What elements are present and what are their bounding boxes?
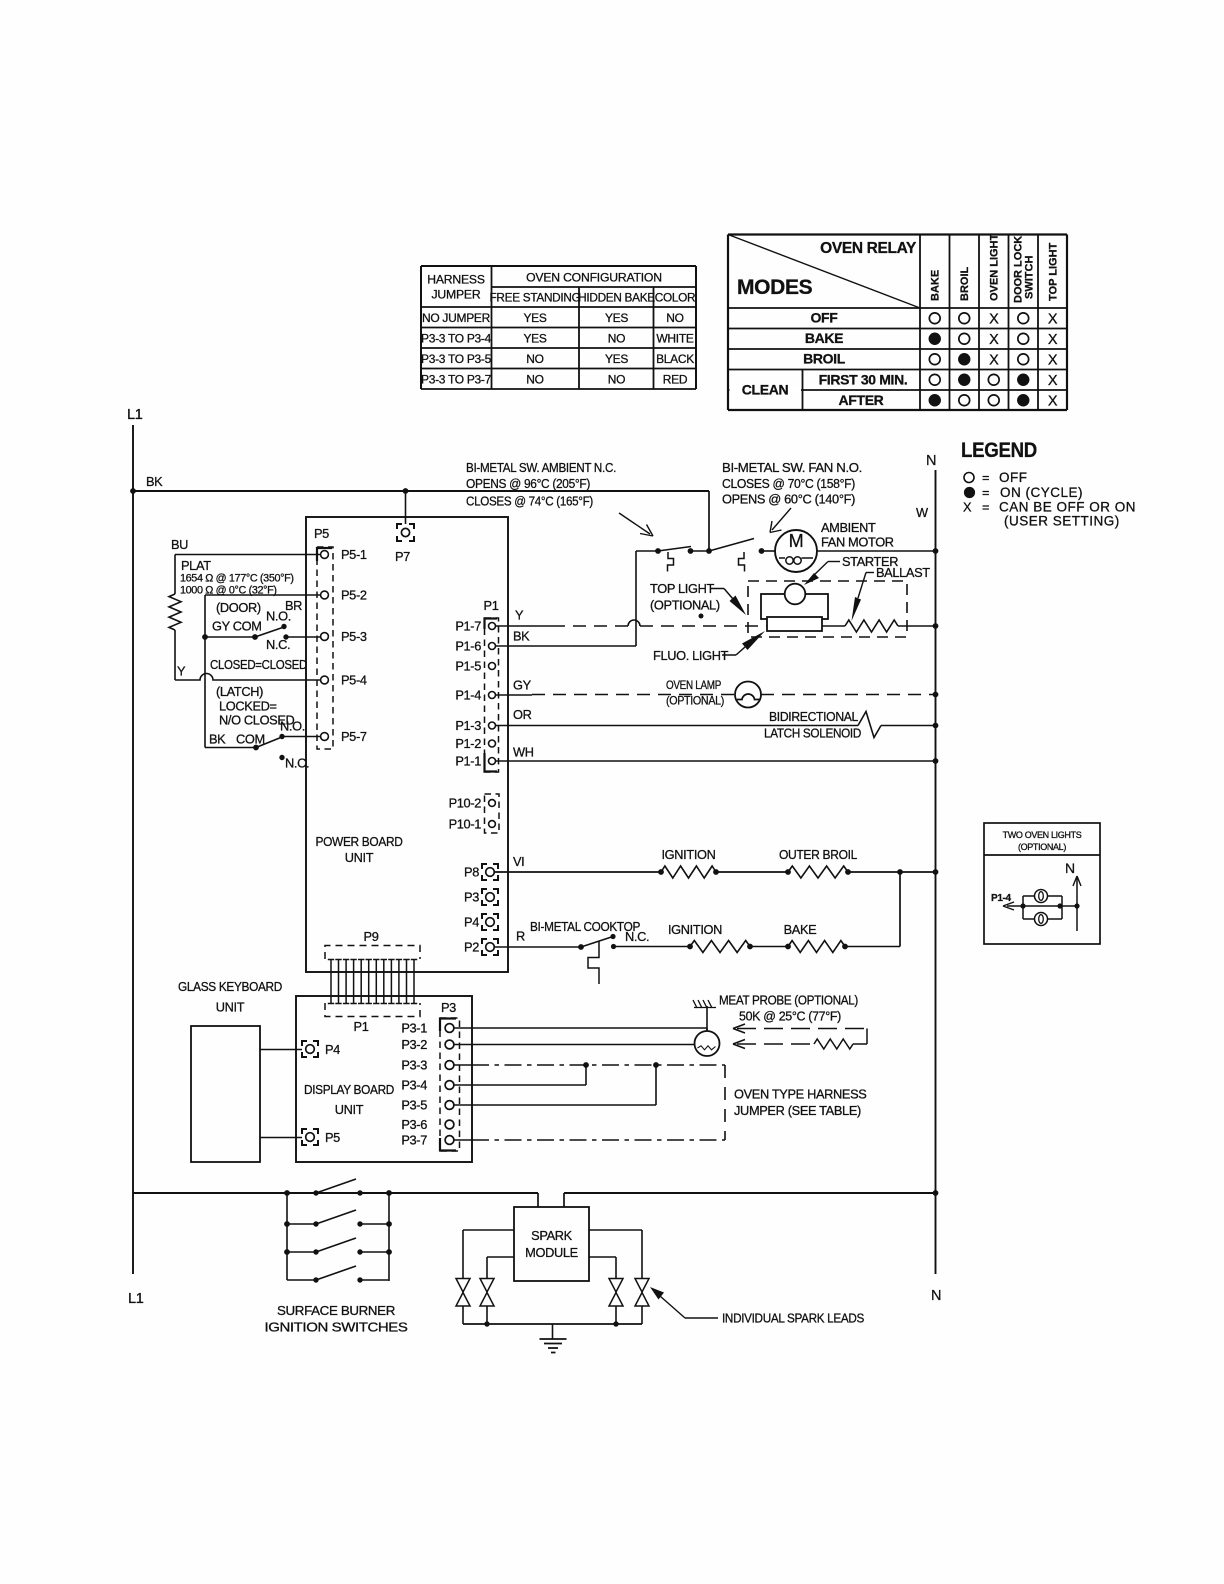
svg-text:SWITCH: SWITCH	[1024, 256, 1036, 299]
svg-text:BAKE: BAKE	[784, 922, 817, 937]
svg-text:OVEN TYPE HARNESS: OVEN TYPE HARNESS	[734, 1087, 867, 1102]
svg-text:P4: P4	[325, 1042, 340, 1057]
svg-text:YES: YES	[523, 311, 546, 325]
svg-text:BK: BK	[513, 629, 530, 644]
svg-text:=: =	[982, 470, 989, 485]
svg-text:BAKE: BAKE	[930, 270, 942, 301]
svg-text:=: =	[982, 500, 989, 515]
svg-text:50K @ 25°C (77°F): 50K @ 25°C (77°F)	[739, 1009, 841, 1024]
svg-text:BAKE: BAKE	[805, 330, 843, 346]
svg-text:NO: NO	[526, 373, 543, 387]
svg-text:UNIT: UNIT	[216, 1000, 245, 1015]
svg-text:N.O.: N.O.	[280, 719, 305, 734]
svg-text:P1: P1	[484, 598, 499, 613]
svg-text:=: =	[982, 485, 989, 500]
svg-text:COM: COM	[236, 732, 265, 747]
svg-text:(OPTIONAL): (OPTIONAL)	[1018, 842, 1066, 852]
svg-text:NO JUMPER: NO JUMPER	[422, 311, 491, 325]
svg-text:FAN MOTOR: FAN MOTOR	[821, 535, 894, 550]
svg-text:P2: P2	[464, 940, 479, 955]
svg-text:NO: NO	[608, 332, 625, 346]
svg-text:BI-METAL SW. AMBIENT N.C.: BI-METAL SW. AMBIENT N.C.	[466, 460, 616, 475]
svg-text:N: N	[931, 1288, 941, 1304]
svg-text:P1-4: P1-4	[991, 893, 1012, 904]
svg-text:BR: BR	[285, 598, 302, 613]
svg-text:P3: P3	[441, 1000, 456, 1015]
svg-text:1654 Ω @ 177°C (350°F): 1654 Ω @ 177°C (350°F)	[180, 573, 294, 585]
svg-text:X: X	[1048, 373, 1058, 389]
svg-text:LEGEND: LEGEND	[961, 438, 1037, 462]
svg-text:VI: VI	[513, 854, 524, 869]
svg-text:LOCKED=: LOCKED=	[219, 699, 277, 714]
svg-text:COLOR: COLOR	[655, 291, 695, 305]
svg-text:WH: WH	[513, 745, 534, 760]
svg-text:P5-3: P5-3	[341, 629, 367, 644]
svg-text:(USER SETTING): (USER SETTING)	[1004, 514, 1120, 529]
svg-text:PLAT: PLAT	[181, 558, 211, 573]
svg-text:P3-3 TO P3-5: P3-3 TO P3-5	[421, 352, 492, 366]
svg-text:P1-2: P1-2	[455, 736, 481, 751]
svg-text:NO: NO	[608, 373, 625, 387]
svg-text:R: R	[516, 929, 525, 944]
svg-text:FIRST 30 MIN.: FIRST 30 MIN.	[819, 372, 908, 388]
svg-text:X: X	[1048, 332, 1058, 348]
svg-text:YES: YES	[523, 332, 546, 346]
svg-text:DISPLAY BOARD: DISPLAY BOARD	[304, 1082, 394, 1097]
svg-text:CAN BE OFF OR ON: CAN BE OFF OR ON	[999, 500, 1136, 515]
svg-text:INDIVIDUAL SPARK LEADS: INDIVIDUAL SPARK LEADS	[722, 1312, 864, 1326]
svg-text:X: X	[989, 311, 999, 327]
svg-text:P5-1: P5-1	[341, 547, 367, 562]
svg-text:WHITE: WHITE	[656, 332, 693, 346]
svg-text:N.C.: N.C.	[266, 637, 290, 652]
svg-text:X: X	[989, 352, 999, 368]
svg-text:BU: BU	[171, 537, 188, 552]
svg-text:TOP LIGHT: TOP LIGHT	[1048, 242, 1060, 301]
svg-text:NO: NO	[666, 311, 683, 325]
svg-text:OVEN CONFIGURATION: OVEN CONFIGURATION	[526, 271, 662, 285]
svg-text:P5-7: P5-7	[341, 729, 367, 744]
svg-text:OFF: OFF	[811, 310, 839, 326]
svg-text:OR: OR	[513, 707, 532, 722]
svg-text:CLOSES @ 70°C (158°F): CLOSES @ 70°C (158°F)	[722, 476, 855, 491]
svg-text:CLEAN: CLEAN	[742, 382, 789, 398]
svg-text:Y: Y	[515, 608, 524, 623]
svg-text:P3-6: P3-6	[401, 1117, 427, 1132]
svg-text:X: X	[1048, 393, 1058, 409]
svg-text:OUTER BROIL: OUTER BROIL	[779, 847, 857, 862]
svg-text:W: W	[916, 505, 929, 520]
svg-text:P1-5: P1-5	[455, 659, 481, 674]
svg-text:P9: P9	[364, 929, 379, 944]
svg-text:P5-4: P5-4	[341, 673, 367, 688]
svg-text:P10-1: P10-1	[449, 817, 482, 832]
svg-text:BALLAST: BALLAST	[876, 565, 930, 580]
svg-text:TOP LIGHT: TOP LIGHT	[650, 581, 714, 596]
svg-text:P4: P4	[464, 915, 479, 930]
svg-text:GY COM: GY COM	[212, 619, 262, 634]
svg-text:BK: BK	[209, 732, 226, 747]
svg-text:MODES: MODES	[737, 276, 813, 299]
svg-text:P1: P1	[354, 1019, 369, 1034]
svg-text:P7: P7	[395, 549, 410, 564]
svg-text:MEAT PROBE (OPTIONAL): MEAT PROBE (OPTIONAL)	[719, 993, 858, 1008]
svg-text:P10-2: P10-2	[449, 796, 482, 811]
svg-text:BIDIRECTIONAL: BIDIRECTIONAL	[769, 709, 858, 724]
svg-text:AMBIENT: AMBIENT	[821, 520, 876, 535]
svg-text:P5-2: P5-2	[341, 588, 367, 603]
svg-text:OVEN LIGHT: OVEN LIGHT	[989, 233, 1001, 301]
svg-text:N.C.: N.C.	[625, 929, 649, 944]
svg-text:P3-5: P3-5	[401, 1098, 427, 1113]
svg-text:OPENS @ 96°C (205°F): OPENS @ 96°C (205°F)	[466, 476, 590, 491]
svg-text:SPARK: SPARK	[531, 1228, 572, 1243]
svg-text:P5: P5	[325, 1130, 340, 1145]
svg-text:OPENS @ 60°C (140°F): OPENS @ 60°C (140°F)	[722, 492, 855, 507]
svg-text:AFTER: AFTER	[839, 392, 884, 408]
svg-text:BI-METAL COOKTOP: BI-METAL COOKTOP	[530, 919, 640, 934]
svg-text:P1-7: P1-7	[455, 619, 481, 634]
svg-text:1000 Ω @ 0°C (32°F): 1000 Ω @ 0°C (32°F)	[180, 585, 277, 597]
svg-text:LATCH SOLENOID: LATCH SOLENOID	[764, 726, 861, 741]
svg-text:P3-1: P3-1	[401, 1021, 427, 1036]
svg-text:L1: L1	[127, 407, 143, 423]
svg-text:GY: GY	[513, 678, 532, 693]
svg-text:P3-2: P3-2	[401, 1037, 427, 1052]
svg-text:X: X	[1048, 311, 1058, 327]
svg-text:P1-6: P1-6	[455, 639, 481, 654]
svg-text:MODULE: MODULE	[525, 1245, 578, 1260]
svg-text:IGNITION: IGNITION	[661, 847, 715, 862]
svg-text:FREE STANDING: FREE STANDING	[490, 291, 581, 305]
svg-text:P3-3 TO P3-7: P3-3 TO P3-7	[421, 373, 492, 387]
svg-text:N.C.: N.C.	[285, 756, 309, 771]
svg-text:BLACK: BLACK	[656, 352, 694, 366]
svg-text:X: X	[963, 500, 972, 515]
svg-text:P3-3 TO P3-4: P3-3 TO P3-4	[421, 332, 492, 346]
svg-text:IGNITION SWITCHES: IGNITION SWITCHES	[265, 1320, 408, 1335]
svg-text:P3: P3	[464, 890, 479, 905]
svg-text:P1-3: P1-3	[455, 718, 481, 733]
svg-text:(OPTIONAL): (OPTIONAL)	[650, 598, 720, 613]
svg-text:BROIL: BROIL	[803, 351, 846, 367]
svg-text:UNIT: UNIT	[345, 850, 374, 865]
svg-text:BROIL: BROIL	[959, 267, 971, 302]
svg-text:JUMPER (SEE TABLE): JUMPER (SEE TABLE)	[734, 1103, 861, 1118]
svg-text:OFF: OFF	[999, 470, 1028, 485]
svg-text:P3-3: P3-3	[401, 1058, 427, 1073]
svg-text:P3-4: P3-4	[401, 1078, 427, 1093]
svg-text:(LATCH): (LATCH)	[216, 684, 263, 699]
svg-text:P1-4: P1-4	[455, 688, 481, 703]
svg-text:P8: P8	[464, 865, 479, 880]
svg-text:CLOSED=CLOSED: CLOSED=CLOSED	[210, 657, 307, 672]
svg-text:YES: YES	[605, 311, 628, 325]
svg-text:IGNITION: IGNITION	[668, 922, 722, 937]
svg-text:UNIT: UNIT	[335, 1102, 364, 1117]
svg-text:ON (CYCLE): ON (CYCLE)	[1000, 485, 1083, 500]
svg-text:NO: NO	[526, 352, 543, 366]
svg-text:POWER BOARD: POWER BOARD	[316, 834, 403, 849]
svg-text:HARNESS: HARNESS	[427, 273, 485, 287]
svg-text:GLASS KEYBOARD: GLASS KEYBOARD	[178, 979, 282, 994]
svg-text:X: X	[1048, 352, 1058, 368]
svg-text:BI-METAL SW. FAN N.O.: BI-METAL SW. FAN N.O.	[722, 460, 862, 475]
svg-text:OVEN LAMP: OVEN LAMP	[666, 678, 721, 692]
svg-text:N: N	[1065, 860, 1075, 876]
svg-text:X: X	[989, 332, 999, 348]
svg-text:TWO OVEN LIGHTS: TWO OVEN LIGHTS	[1003, 830, 1082, 840]
svg-text:M: M	[789, 531, 804, 551]
svg-text:Y: Y	[177, 664, 186, 679]
svg-text:RED: RED	[663, 373, 688, 387]
svg-text:YES: YES	[605, 352, 628, 366]
svg-text:(OPTIONAL): (OPTIONAL)	[666, 694, 724, 708]
svg-text:SURFACE BURNER: SURFACE BURNER	[277, 1303, 395, 1318]
svg-text:JUMPER: JUMPER	[432, 288, 481, 302]
svg-text:N: N	[926, 453, 936, 469]
svg-text:P1-1: P1-1	[455, 754, 481, 769]
svg-text:OVEN RELAY: OVEN RELAY	[820, 240, 917, 257]
svg-text:CLOSES @ 74°C (165°F): CLOSES @ 74°C (165°F)	[466, 494, 593, 509]
svg-text:P5: P5	[314, 526, 329, 541]
svg-text:(DOOR): (DOOR)	[216, 600, 261, 615]
svg-text:P3-7: P3-7	[401, 1133, 427, 1148]
svg-text:HIDDEN BAKE: HIDDEN BAKE	[578, 291, 655, 305]
svg-text:FLUO. LIGHT: FLUO. LIGHT	[653, 648, 729, 663]
svg-text:L1: L1	[128, 1291, 144, 1307]
svg-text:BK: BK	[146, 474, 163, 489]
